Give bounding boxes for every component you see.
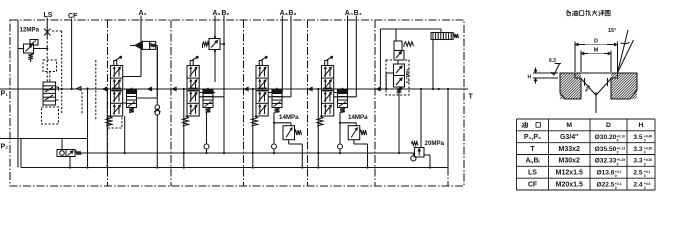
- bridge into compensator section 1: [123, 102, 127, 104]
- svg-text:0: 0: [644, 162, 646, 166]
- inlet block casing: [18, 20, 89, 169]
- svg-text:14MPa: 14MPa: [348, 114, 368, 121]
- svg-text:P₁,P₂: P₁,P₂: [524, 134, 541, 141]
- port A₃ label: [280, 10, 288, 17]
- flow arrows on gallery: [103, 87, 380, 90]
- svg-text:0: 0: [617, 151, 619, 155]
- svg-text:H: H: [639, 122, 644, 129]
- port relief valve 14MPa section 3: [273, 122, 304, 169]
- svg-text:LS: LS: [44, 12, 53, 19]
- valve V4 return spring: [317, 116, 323, 126]
- bottom tank bus line: [21, 167, 448, 169]
- back pressure valve spring: [397, 87, 402, 154]
- port A₁ line: [140, 16, 142, 42]
- hatching left block: [560, 73, 581, 99]
- relief valve RV1 label 12MPa: [20, 27, 40, 34]
- port B₃ line: [290, 16, 292, 97]
- svg-text:CF: CF: [68, 13, 78, 20]
- svg-text:B₂: B₂: [221, 10, 229, 17]
- port A₄ line: [347, 16, 349, 93]
- svg-text:3.3: 3.3: [633, 146, 642, 153]
- relief valve RV1 12MPa: [18, 40, 48, 63]
- compensator drain dash box: [42, 107, 59, 124]
- directional valve V1 spool: [111, 66, 123, 117]
- svg-text:2.4: 2.4: [633, 181, 642, 188]
- svg-text:T: T: [469, 94, 474, 101]
- svg-text:P₂: P₂: [1, 144, 9, 151]
- svg-text:Ø32.33: Ø32.33: [595, 158, 617, 165]
- dim M extension lines: [581, 51, 611, 73]
- section divider chain line 2: [170, 20, 172, 186]
- svg-text:0.7MPa: 0.7MPa: [405, 68, 410, 83]
- bridge line A section 4: [334, 92, 348, 94]
- port B₂ label: [221, 10, 229, 17]
- bridge line A section 2: [199, 92, 215, 94]
- svg-text:20MPa: 20MPa: [425, 140, 445, 147]
- svg-text:M33x2: M33x2: [559, 146, 581, 153]
- valve V1 lever: [114, 56, 122, 66]
- port B2 drain dot: [223, 152, 225, 154]
- section divider chain line 3: [243, 20, 245, 186]
- table header row: [522, 122, 644, 129]
- port relief valve on A2: [203, 36, 226, 82]
- port P1 label: [1, 91, 9, 98]
- svg-text:A₃: A₃: [280, 10, 288, 17]
- svg-text:A₁: A₁: [139, 10, 147, 17]
- bridge line A section 3: [268, 92, 282, 94]
- svg-text:Ø30.20: Ø30.20: [595, 134, 617, 141]
- tank riser section 1: [106, 88, 108, 169]
- section divider chain line 1: [107, 20, 109, 186]
- svg-text:M: M: [594, 48, 599, 54]
- svg-text:0: 0: [615, 174, 617, 178]
- LS pilot dash lines: [52, 31, 63, 113]
- svg-text:0: 0: [644, 186, 646, 190]
- anti cavitation valve on A1: [130, 41, 157, 96]
- table row CF: [528, 181, 651, 190]
- svg-text:B₄: B₄: [354, 10, 362, 17]
- svg-text:M: M: [566, 122, 572, 129]
- valve V3 lever: [259, 56, 267, 66]
- open arrow on gallery: [77, 87, 81, 91]
- port A₄ label: [345, 10, 353, 17]
- wire inlet left riser: [20, 139, 22, 168]
- svg-text:H: H: [528, 75, 532, 81]
- drain gallery line: [81, 152, 413, 154]
- svg-text:Ø35.50: Ø35.50: [595, 146, 617, 153]
- svg-text:14MPa: 14MPa: [279, 114, 299, 121]
- compensator element section 1: [127, 88, 137, 113]
- port T label: [469, 94, 474, 101]
- end section riser lines: [379, 29, 393, 90]
- dim D: [575, 39, 618, 46]
- compensator pilot dash box: [43, 60, 57, 82]
- port CF label: [68, 13, 78, 20]
- valve V1 outlet drop: [124, 116, 126, 154]
- dim 15 deg: [608, 28, 634, 73]
- main relief valve 20MPa label: [425, 140, 445, 147]
- section divider chain line 4: [307, 20, 309, 186]
- svg-text:B₃: B₃: [288, 10, 296, 17]
- port A₁ label: [139, 10, 147, 17]
- svg-text:0: 0: [644, 174, 646, 178]
- dim D extension lines: [575, 42, 618, 73]
- drain port circle section 4: [338, 113, 343, 155]
- tank riser right: [438, 88, 450, 186]
- centerline: [595, 92, 597, 113]
- port relief valve 14MPa section 4 label: [348, 114, 368, 121]
- CF port line: [71, 19, 73, 91]
- svg-text:D: D: [594, 39, 598, 45]
- svg-text:CF: CF: [528, 181, 538, 188]
- svg-text:M30x2: M30x2: [559, 158, 581, 165]
- bore chamfer V: [575, 73, 618, 95]
- section divider chain line 5: [374, 20, 376, 186]
- surface finish 6.3: [549, 58, 561, 75]
- drain port circle section 3: [272, 113, 277, 155]
- main relief valve 20MPa: [411, 88, 431, 169]
- compensator element section 4: [338, 88, 348, 113]
- P2 port line: [0, 138, 88, 140]
- pilot valve on P2: [57, 139, 81, 169]
- port body section outline: [560, 73, 637, 99]
- svg-text:G3/4″: G3/4″: [560, 134, 579, 141]
- valve V2 return spring: [183, 116, 189, 126]
- svg-text:3.5: 3.5: [633, 134, 642, 141]
- svg-text:3.3: 3.3: [633, 158, 642, 165]
- tank riser section 4: [317, 88, 319, 169]
- port LS label: [44, 12, 53, 19]
- svg-text:0: 0: [644, 151, 646, 155]
- svg-text:Ø13.6: Ø13.6: [597, 170, 615, 177]
- svg-text:P₁: P₁: [1, 91, 9, 98]
- table row T: [530, 146, 652, 155]
- T drain segment section 1: [137, 97, 158, 99]
- dim H: [528, 68, 559, 84]
- svg-text:T: T: [530, 146, 535, 153]
- svg-text:12MPa: 12MPa: [20, 27, 40, 34]
- drain port circle section 2: [204, 113, 209, 155]
- back pressure valve 0.7MPa dash box: [386, 60, 409, 95]
- tank riser section 2: [183, 88, 185, 169]
- port A₃ line: [281, 16, 283, 93]
- valve V4 lever: [325, 56, 333, 66]
- svg-text:15°: 15°: [608, 28, 616, 34]
- valve V1 return spring: [106, 116, 112, 126]
- svg-text:A₄: A₄: [345, 10, 353, 17]
- port B₄ line: [355, 16, 357, 97]
- back pressure valve 0.7MPa: [394, 64, 411, 87]
- gallery dash below: [82, 60, 96, 120]
- svg-text:Aᵢ,Bᵢ: Aᵢ,Bᵢ: [525, 158, 539, 165]
- LS port line: [46, 18, 48, 27]
- unload valve top line: [380, 29, 441, 41]
- port P2 label: [1, 144, 9, 151]
- orifice star on LS line: [44, 27, 51, 38]
- svg-text:D: D: [606, 122, 611, 129]
- port B₂ line: [223, 16, 225, 154]
- svg-text:LS: LS: [528, 170, 537, 177]
- svg-text:0: 0: [615, 186, 617, 190]
- svg-text:0: 0: [617, 139, 619, 143]
- inlet compensator spool: [43, 82, 59, 105]
- LS pilot dash line: [46, 26, 48, 82]
- svg-text:2.5: 2.5: [633, 170, 642, 177]
- directional valve V3 spool: [256, 66, 268, 117]
- chamfer label 120: [583, 83, 591, 92]
- bridge line B section 4: [334, 96, 357, 98]
- svg-text:M12x1.5: M12x1.5: [556, 170, 583, 177]
- enclosure dash-dot border of valve assembly: [10, 20, 464, 186]
- port spec table grid: [517, 119, 656, 190]
- svg-text:Ø22.5: Ø22.5: [597, 181, 615, 188]
- hatching right block: [611, 73, 637, 99]
- table row P1P2: [524, 134, 653, 143]
- bridge line B section 2: [199, 96, 224, 98]
- port B₃ label: [288, 10, 296, 17]
- port relief valve 14MPa section 3 label: [279, 114, 299, 121]
- bridge line B section 3: [268, 96, 291, 98]
- directional valve V4 spool: [322, 66, 334, 117]
- dim M: [581, 48, 611, 55]
- detail drawing title: [566, 10, 610, 16]
- port A₂ line: [214, 16, 216, 37]
- svg-text:A₂: A₂: [212, 10, 220, 17]
- LS unload valve pair: [394, 41, 414, 64]
- check valve section 1: [154, 45, 160, 168]
- port relief valve 14MPa section 4: [339, 122, 369, 169]
- port B₄ label: [354, 10, 362, 17]
- valve V3 return spring: [252, 116, 258, 126]
- valve V1 pilot dash box: [108, 116, 122, 128]
- filter component: [431, 33, 459, 40]
- table row AiBi: [525, 158, 652, 167]
- bridge line A section 1: [123, 49, 141, 76]
- svg-text:M20x1.5: M20x1.5: [556, 181, 583, 188]
- svg-text:0: 0: [644, 139, 646, 143]
- directional valve V2 spool: [187, 66, 199, 117]
- compensator element section 2: [203, 88, 213, 113]
- P main gallery line: [0, 88, 468, 90]
- filter drop line: [432, 40, 434, 91]
- port A₂ label: [212, 10, 220, 17]
- svg-text:0: 0: [617, 162, 619, 166]
- compensator element section 3: [272, 88, 282, 113]
- valve V2 lever: [190, 56, 198, 66]
- tank riser section 3: [252, 88, 254, 169]
- table row LS: [528, 170, 651, 179]
